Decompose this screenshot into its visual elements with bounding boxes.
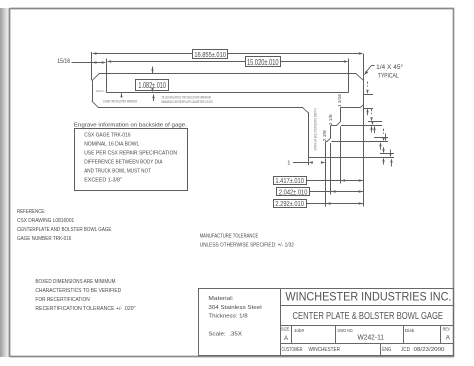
svg-text:SIZE: SIZE (281, 327, 290, 332)
svg-text:15/16: 15/16 (57, 58, 70, 65)
svg-text:CENTER PLATE & BOLSTER BOWL GA: CENTER PLATE & BOLSTER BOWL GAGE (293, 311, 444, 322)
svg-text:AND TRUCK BOWL MUST NOT: AND TRUCK BOWL MUST NOT (84, 169, 151, 175)
svg-text:CHARACTERISTICS TO BE VERIFIED: CHARACTERISTICS TO BE VERIFIED (35, 288, 121, 294)
svg-text:BOXED DIMENSIONS ARE MINIMUM: BOXED DIMENSIONS ARE MINIMUM (35, 279, 115, 285)
svg-text:ENG: ENG (382, 347, 391, 353)
svg-text:UNLESS OTHERWISE SPECIFIED: +/: UNLESS OTHERWISE SPECIFIED: +/- 1/32 (200, 242, 294, 248)
svg-text:08/23/2000: 08/23/2000 (414, 347, 445, 353)
svg-text:304 Stainless Steel: 304 Stainless Steel (208, 305, 261, 311)
svg-text:TYPICAL: TYPICAL (378, 73, 399, 80)
svg-text:REFERENCE:: REFERENCE: (17, 209, 46, 215)
svg-text:GA/1 1: GA/1 1 (96, 89, 105, 93)
svg-text:2 1/8: 2 1/8 (328, 114, 333, 126)
svg-text:2.292±.010: 2.292±.010 (275, 201, 304, 208)
svg-text:1: 1 (287, 160, 290, 166)
svg-text:Scale: .35X: Scale: .35X (208, 332, 242, 338)
svg-text:Thickness: 1/8: Thickness: 1/8 (208, 314, 247, 320)
svg-text:A: A (284, 335, 289, 342)
svg-text:CSX GAGE TRK-016: CSX GAGE TRK-016 (84, 133, 130, 139)
svg-text:14.688 TRK BOLSTER MINIMUM: 14.688 TRK BOLSTER MINIMUM (103, 99, 137, 103)
svg-text:FOR RECERTIFICATION: FOR RECERTIFICATION (35, 297, 89, 303)
svg-text:15.116 BOLANCE TRK BOLSTER MIN: 15.116 BOLANCE TRK BOLSTER MINIMUM (161, 95, 211, 99)
svg-text:2 3/8: 2 3/8 (322, 130, 327, 142)
svg-text:RECERTIFICATION TOLERANCE +/-: RECERTIFICATION TOLERANCE +/- .020" (35, 306, 135, 312)
svg-text:MANUFACTURE TOLERANCE: MANUFACTURE TOLERANCE (200, 233, 259, 239)
svg-text:Job#: Job# (294, 328, 305, 334)
svg-text:1 3/16: 1 3/16 (337, 93, 342, 107)
svg-text:MINIMUM CENTERPLATE DIAMETER 1: MINIMUM CENTERPLATE DIAMETER 15.020 (161, 100, 212, 104)
svg-text:Disk: Disk (405, 328, 415, 334)
svg-text:WINCHESTER INDUSTRIES INC.: WINCHESTER INDUSTRIES INC. (285, 290, 451, 304)
svg-text:REV: REV (443, 327, 451, 332)
svg-text:JCD: JCD (401, 347, 410, 353)
svg-text:16.855±.010: 16.855±.010 (194, 50, 226, 59)
svg-text:A: A (446, 334, 451, 341)
svg-text:Material:: Material: (208, 296, 234, 302)
svg-text:EXCEED 1-3/8": EXCEED 1-3/8" (84, 178, 122, 184)
svg-text:15.020±.010: 15.020±.010 (247, 58, 279, 67)
svg-text:2.042±.010: 2.042±.010 (279, 189, 308, 196)
svg-text:CSX DRAWING L0816001: CSX DRAWING L0816001 (17, 218, 74, 224)
svg-text:W242-11: W242-11 (358, 335, 385, 342)
svg-text:DWG NO.: DWG NO. (338, 328, 354, 333)
svg-text:MINIMUM BOLSTER BOWL DEPTH: MINIMUM BOLSTER BOWL DEPTH (314, 108, 318, 150)
svg-text:USE PER CSX REPAIR SPECIFICATI: USE PER CSX REPAIR SPECIFICATION (84, 151, 177, 157)
svg-text:Engrave information on backsid: Engrave information on backside of gage. (74, 122, 187, 128)
svg-text:CENTERPLATE AND BOLSTER BOWL G: CENTERPLATE AND BOLSTER BOWL GAGE (17, 227, 112, 233)
svg-text:DIFFERENCE BETWEEN BODY DIA: DIFFERENCE BETWEEN BODY DIA (84, 160, 163, 166)
svg-text:GAGE NUMBER TRK-016: GAGE NUMBER TRK-016 (17, 236, 71, 242)
svg-text:CUSTOMER: CUSTOMER (282, 347, 303, 353)
svg-text:NOMINAL 16 DIA BOWL: NOMINAL 16 DIA BOWL (84, 142, 139, 148)
svg-text:1.417±.010: 1.417±.010 (275, 178, 304, 185)
svg-text:WINCHESTER: WINCHESTER (309, 347, 341, 353)
svg-text:1/4 X 45°: 1/4 X 45° (376, 63, 403, 71)
